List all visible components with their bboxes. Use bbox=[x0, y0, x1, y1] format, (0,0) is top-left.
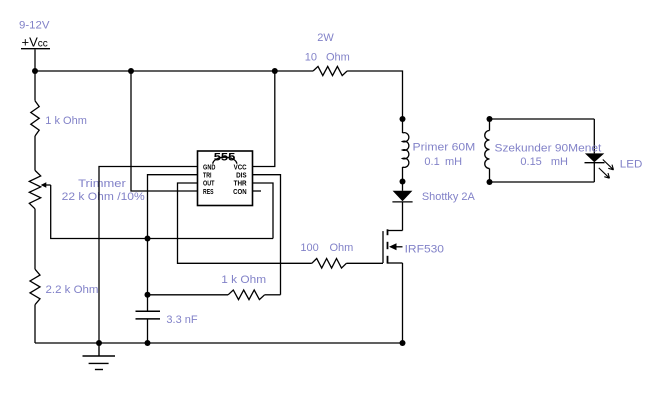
wire trimmer to R3 bbox=[34, 209, 36, 269]
U1 notch arc bbox=[213, 157, 237, 164]
wire THR pin to wiper net bbox=[253, 183, 274, 239]
wire wiper to THR net bbox=[51, 185, 273, 239]
wire CON pin stub bbox=[253, 190, 262, 192]
transistor Q1 body arrow bbox=[396, 246, 403, 248]
wire RES pin to Vcc rail bbox=[131, 71, 198, 191]
node source ground junction bbox=[400, 340, 406, 346]
wire secondary right lower bbox=[593, 163, 595, 182]
transistor Q1 IRF530 drain lead bbox=[388, 230, 403, 232]
svg-text:RES: RES bbox=[203, 187, 214, 196]
svg-text:0.15: 0.15 bbox=[520, 156, 541, 168]
svg-text:22 k Ohm /10%: 22 k Ohm /10% bbox=[62, 191, 145, 203]
inductor primary Primer 60M 0.1 mH bbox=[403, 133, 409, 168]
resistor R4 100 Ohm bbox=[312, 259, 347, 269]
svg-text:LED: LED bbox=[620, 159, 643, 171]
resistor 10 Ohm 2W bbox=[313, 66, 347, 75]
svg-text:mH: mH bbox=[445, 156, 462, 168]
svg-text:0.1: 0.1 bbox=[424, 156, 439, 168]
svg-text:Primer 60M: Primer 60M bbox=[413, 141, 476, 153]
node rail junction at VCC riser bbox=[272, 68, 278, 74]
svg-text:9-12V: 9-12V bbox=[19, 19, 50, 31]
wire OUT pin down and to gate resistor bbox=[178, 183, 312, 263]
svg-text:2.2 k Ohm: 2.2 k Ohm bbox=[46, 284, 99, 296]
diode D1 Shottky 2A bbox=[393, 191, 413, 202]
wire secondary coil top lead bbox=[489, 119, 491, 131]
svg-text:Ohm: Ohm bbox=[326, 52, 350, 64]
transistor Q1 gate bar bbox=[382, 231, 384, 263]
wire 100 Ohm to gate bbox=[346, 262, 383, 264]
wire R3 to ground rail bbox=[34, 305, 36, 343]
svg-text:Trimmer: Trimmer bbox=[78, 178, 126, 190]
node rail at cap riser bbox=[145, 340, 151, 346]
wire secondary top bbox=[490, 118, 595, 120]
node wiper net at TRI riser bbox=[145, 236, 151, 242]
ground symbol bbox=[83, 343, 116, 370]
wire primary bottom lead bbox=[402, 167, 404, 182]
op-amp/timer U1 555 body bbox=[198, 151, 253, 206]
svg-text:IRF530: IRF530 bbox=[405, 243, 444, 255]
wire secondary right upper bbox=[593, 119, 595, 153]
svg-text:mH: mH bbox=[551, 156, 568, 168]
svg-text:CON: CON bbox=[233, 187, 247, 196]
wire ground rail bbox=[35, 342, 403, 344]
wire primary top lead bbox=[402, 119, 404, 133]
svg-text:2W: 2W bbox=[317, 32, 334, 44]
wire capacitor to ground rail bbox=[147, 319, 149, 343]
wire Vcc stem bbox=[34, 50, 36, 72]
transistor Q1 channel segments bbox=[387, 229, 389, 263]
wire diode to MOSFET drain bbox=[402, 202, 404, 231]
node rail junction at RES riser bbox=[128, 68, 134, 74]
LED arrows bbox=[599, 160, 614, 179]
svg-text:3.3 nF: 3.3 nF bbox=[166, 314, 197, 326]
trimmer wiper arrow bbox=[45, 184, 51, 186]
wire cap net to capacitor bbox=[147, 295, 149, 311]
wire GND pin to ground riser bbox=[99, 167, 198, 344]
svg-text:Ohm: Ohm bbox=[330, 242, 354, 254]
resistor R5 1 k Ohm (bottom) bbox=[148, 294, 229, 296]
wire top rail right section bbox=[347, 71, 402, 119]
wire DIS pin to R 1k bbox=[253, 175, 281, 295]
svg-text:1 k Ohm: 1 k Ohm bbox=[45, 115, 87, 127]
resistor R3 2.2 k Ohm bbox=[30, 269, 40, 305]
wire secondary bottom bbox=[490, 181, 595, 183]
svg-text:1 k Ohm: 1 k Ohm bbox=[221, 274, 266, 286]
resistor R1 1 k Ohm bbox=[31, 101, 39, 136]
node secondary coil bottom bbox=[487, 179, 493, 185]
svg-text:100: 100 bbox=[300, 242, 318, 254]
svg-text:Szekunder 90Menet: Szekunder 90Menet bbox=[495, 143, 602, 155]
node primary coil bottom bbox=[400, 179, 406, 185]
wire secondary coil bottom lead bbox=[489, 169, 491, 183]
wire TRI pin to cap net bbox=[148, 175, 198, 295]
svg-text:10: 10 bbox=[305, 52, 317, 64]
node primary coil top bbox=[400, 116, 406, 122]
wire VCC pin to rail bbox=[253, 71, 275, 167]
node Vcc rail junction bbox=[32, 68, 38, 74]
node secondary coil top bbox=[487, 116, 493, 122]
wire top rail left section bbox=[35, 70, 313, 72]
wire source to ground rail bbox=[402, 263, 404, 343]
LED D2 bbox=[585, 153, 604, 162]
svg-text:Shottky 2A: Shottky 2A bbox=[422, 191, 476, 203]
trimmer potentiometer 22 k Ohm bbox=[29, 170, 40, 208]
wire R1 to trimmer bbox=[34, 136, 36, 170]
wire to diode bbox=[402, 182, 404, 191]
svg-text:555: 555 bbox=[214, 152, 236, 164]
node cap net at R 1k bbox=[145, 292, 151, 298]
capacitor C1 3.3 nF bbox=[136, 311, 161, 319]
node rail at GND riser bbox=[96, 340, 102, 346]
wire Vcc to R1 bbox=[34, 71, 36, 101]
transistor Q1 source lead bbox=[388, 262, 403, 264]
inductor secondary Szekunder 90Menet 0.15 mH bbox=[485, 131, 490, 169]
